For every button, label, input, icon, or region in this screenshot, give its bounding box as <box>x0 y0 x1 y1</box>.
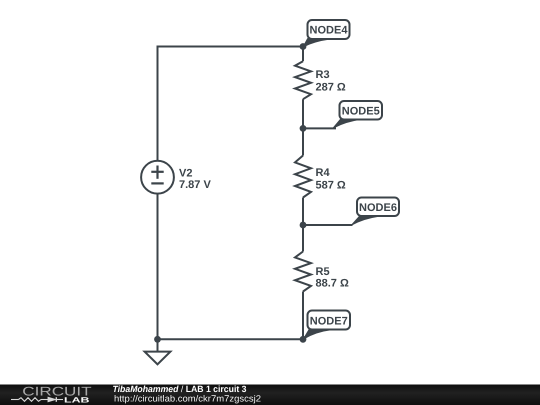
svg-text:NODE7: NODE7 <box>310 315 348 327</box>
wire between NODE6 and R5 <box>302 225 304 252</box>
svg-text:NODE6: NODE6 <box>359 202 397 214</box>
svg-text:R4: R4 <box>316 167 331 179</box>
svg-text:http://circuitlab.com/ckr7m7zg: http://circuitlab.com/ckr7m7zgscsj2 <box>114 393 261 403</box>
ground <box>145 339 171 364</box>
wire NODE6 stub <box>303 224 353 226</box>
wire left vertical upper <box>157 46 159 162</box>
wire bottom horizontal <box>158 338 304 340</box>
footer bar <box>0 385 540 405</box>
svg-text:TibaMohammed / LAB 1 circuit 3: TibaMohammed / LAB 1 circuit 3 <box>113 384 247 394</box>
svg-text:LAB: LAB <box>64 396 90 405</box>
resistor R4 <box>295 156 311 198</box>
wire left vertical lower <box>157 194 159 340</box>
resistor R3 <box>295 61 311 99</box>
svg-text:R3: R3 <box>316 69 330 81</box>
node label NODE7 <box>304 311 351 340</box>
node NODE5 junction <box>300 125 307 132</box>
node NODE6 junction <box>300 222 307 229</box>
wire below R3 <box>302 99 304 128</box>
wire below R5 <box>302 292 304 340</box>
svg-text:287 Ω: 287 Ω <box>316 82 346 94</box>
junction at ground node <box>154 336 161 343</box>
node label NODE5 <box>333 101 382 128</box>
svg-text:NODE4: NODE4 <box>310 25 349 37</box>
node label NODE4 <box>303 20 349 47</box>
wire between NODE5 and R4 <box>302 128 304 155</box>
svg-text:NODE5: NODE5 <box>342 106 380 118</box>
node NODE7 junction <box>300 336 307 343</box>
node NODE4 junction <box>300 43 307 50</box>
wire NODE5 stub <box>303 127 336 129</box>
CircuitLab logo mini schematic wire with resistor and diode <box>11 397 63 402</box>
svg-text:V2: V2 <box>179 168 192 180</box>
svg-text:7.87 V: 7.87 V <box>179 179 211 191</box>
svg-text:88.7 Ω: 88.7 Ω <box>316 278 349 290</box>
svg-text:R5: R5 <box>316 266 330 278</box>
svg-text:587 Ω: 587 Ω <box>316 179 346 191</box>
wire top horizontal <box>158 46 304 48</box>
voltage source V2 <box>141 161 174 194</box>
resistor R5 <box>295 252 311 292</box>
wire right rail top stub <box>302 47 304 62</box>
wire below R4 <box>302 198 304 226</box>
node label NODE6 <box>352 198 400 226</box>
